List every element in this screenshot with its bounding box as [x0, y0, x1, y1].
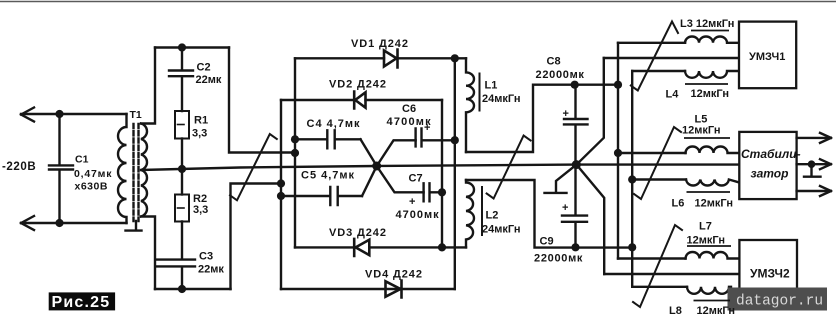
svg-text:L4: L4 — [666, 89, 680, 101]
watermark datagor.ru — [728, 288, 828, 311]
node C6 plus — [451, 136, 459, 144]
svg-text:12мкГн: 12мкГн — [697, 305, 735, 317]
node R1 R2 centre — [178, 165, 186, 173]
wire VD3 rail — [295, 246, 466, 248]
svg-text:С2: С2 — [197, 62, 211, 74]
wire VD1 rail — [295, 57, 466, 59]
svg-text:С9: С9 — [540, 236, 554, 248]
wire centre tap line — [141, 165, 739, 170]
svg-text:+: + — [424, 122, 430, 134]
inductor L1 core — [479, 74, 481, 111]
wire C4 to X node — [361, 139, 377, 166]
inductor L2 — [466, 180, 474, 247]
svg-text:22мк: 22мк — [198, 264, 224, 276]
wire 0V upper rail to UMZCH1 — [604, 57, 739, 59]
svg-text:С3: С3 — [199, 251, 213, 263]
inductor L6 — [686, 180, 739, 186]
capacitor C5 — [281, 187, 362, 205]
node C1 top — [55, 110, 63, 118]
svg-text:12мкГн: 12мкГн — [691, 88, 729, 100]
svg-text:3,3: 3,3 — [193, 204, 208, 216]
node VD1 plus — [451, 54, 459, 62]
svg-text:22000мк: 22000мк — [536, 69, 585, 81]
cable mark L7/L8 — [633, 225, 682, 307]
svg-text:12мкГн: 12мкГн — [687, 235, 725, 247]
wire X node to C6 — [377, 140, 416, 166]
capacitor C9 — [562, 165, 587, 248]
svg-text:L7: L7 — [699, 221, 712, 233]
ground at stabilizer common — [804, 164, 821, 177]
capacitor C3 — [157, 222, 195, 290]
capacitor C2 — [169, 48, 193, 112]
capacitor C1 — [49, 114, 73, 223]
svg-text:Стабили-: Стабили- — [741, 147, 801, 161]
svg-text:+: + — [562, 202, 568, 214]
node C9 bottom — [571, 243, 579, 251]
svg-text:R1: R1 — [194, 115, 208, 127]
wire VD2 rail — [281, 99, 442, 101]
wire L3 rail — [618, 42, 685, 44]
svg-text:4700мк: 4700мк — [396, 209, 440, 221]
wire stabilizer output common — [797, 163, 830, 165]
ground at 0V junction — [545, 165, 577, 193]
svg-text:+: + — [563, 108, 569, 120]
arrow input top — [21, 108, 34, 122]
svg-text:12мкГн: 12мкГн — [695, 198, 733, 210]
svg-text:22мк: 22мк — [196, 74, 222, 86]
svg-text:datagor.ru: datagor.ru — [736, 294, 823, 310]
wire VD4 rail — [281, 288, 455, 290]
svg-text:УМЗЧ2: УМЗЧ2 — [750, 267, 790, 281]
wire rail corner to lower AC — [231, 184, 282, 290]
wire L4 rail — [632, 70, 685, 72]
wire AC-a riser (VD1 left column) — [294, 58, 296, 247]
capacitor C6 — [416, 128, 455, 146]
diode VD4 — [386, 281, 402, 298]
resistor R2 — [181, 169, 183, 195]
wire 0V junction to lower branch — [577, 165, 605, 274]
node C7 minus — [438, 188, 446, 196]
svg-text:0,47мк: 0,47мк — [74, 168, 112, 180]
capacitor C8 — [564, 85, 588, 165]
node AC-a in — [291, 149, 299, 157]
svg-text:-220В: -220В — [2, 161, 36, 173]
capacitor C7 — [424, 183, 442, 201]
arrow stabilizer output minus — [820, 186, 831, 196]
svg-text:3,3: 3,3 — [192, 128, 207, 140]
svg-text:L3 12мкГн: L3 12мкГн — [680, 18, 734, 30]
svg-text:L6: L6 — [672, 198, 685, 210]
node C2 top rail — [178, 43, 186, 51]
inductor L8 — [687, 287, 731, 294]
transformer T1 core — [134, 124, 139, 221]
block UMZCH1 — [739, 22, 796, 89]
wire X node to C7 — [377, 166, 424, 192]
svg-text:С6: С6 — [402, 103, 416, 115]
cable mark L1/L2 — [487, 136, 531, 199]
wire L7 rail — [618, 257, 686, 259]
svg-text:VD4 Д242: VD4 Д242 — [365, 269, 423, 281]
resistor R1 — [175, 111, 189, 139]
svg-text:L2: L2 — [486, 210, 499, 222]
svg-text:24мкГн: 24мкГн — [482, 224, 520, 236]
wire R1 to centre — [181, 139, 183, 170]
svg-text:VD3 Д242: VD3 Д242 — [329, 227, 387, 239]
wire bottom rail — [155, 288, 231, 290]
node X centre — [372, 162, 381, 171]
svg-text:22000мк: 22000мк — [534, 253, 583, 265]
transformer T1 primary winding — [118, 114, 127, 223]
wire C5 to X node — [362, 166, 377, 196]
svg-text:Т1: Т1 — [130, 109, 142, 121]
wire L5 rail — [618, 152, 686, 154]
block stabilizer — [739, 132, 796, 199]
svg-text:L8: L8 — [669, 305, 682, 317]
node C3 bottom rail — [178, 285, 186, 293]
wire plus column (outer right) — [454, 58, 456, 289]
diode VD3 — [354, 239, 369, 256]
wire 0V lower rail to UMZCH2 — [604, 273, 739, 275]
wire stabilizer output plus — [797, 137, 830, 139]
svg-text:12мкГн: 12мкГн — [682, 125, 720, 137]
svg-text:С7: С7 — [409, 173, 423, 185]
wire secondary bottom riser — [141, 217, 155, 290]
svg-text:УМЗЧ1: УМЗЧ1 — [749, 51, 785, 63]
svg-text:24мкГн: 24мкГн — [482, 93, 520, 105]
arrow stabilizer output common — [820, 159, 831, 169]
transformer T1 secondary winding — [141, 124, 147, 217]
wire L2 out to minus rail — [466, 180, 632, 248]
inductor L2 core — [481, 187, 483, 235]
wire L8 rail — [632, 286, 687, 288]
wire minus bus — [631, 71, 633, 287]
cable mark L3/L4 — [631, 22, 678, 91]
node AC-b in — [277, 179, 285, 187]
svg-text:Рис.25: Рис.25 — [52, 294, 111, 311]
wire secondary top riser — [141, 48, 155, 124]
arrow stabilizer output plus — [820, 133, 831, 143]
svg-text:VD2 Д242: VD2 Д242 — [329, 79, 387, 91]
wire rail corner to upper AC — [229, 48, 295, 153]
inductor L4 — [685, 71, 739, 78]
wire stabilizer output minus — [797, 190, 830, 192]
svg-text:С4 4,7мк: С4 4,7мк — [307, 118, 361, 130]
capacitor C4 — [295, 130, 361, 148]
node minus bus C9 — [628, 243, 636, 251]
inductor L5 — [686, 147, 740, 154]
wire input bottom — [21, 222, 127, 224]
svg-text:L1: L1 — [485, 80, 498, 92]
node C5 AC-b — [277, 192, 285, 200]
svg-text:х630В: х630В — [75, 181, 108, 193]
node 0V junction — [572, 160, 581, 169]
node plus bus C8 — [614, 81, 622, 89]
inductor L3 — [685, 36, 739, 42]
wire minus column (inner right) — [441, 100, 443, 247]
diode VD1 — [384, 50, 398, 68]
node VD3 minus — [438, 243, 446, 251]
cable mark L5/L6 — [634, 127, 681, 199]
svg-text:затор: затор — [751, 167, 789, 181]
wire plus bus — [617, 43, 619, 259]
node minus bus L6 — [628, 175, 636, 183]
inductor L1 — [466, 58, 474, 152]
svg-text:С8: С8 — [547, 56, 561, 68]
node stabilizer common — [808, 160, 816, 168]
wire input top — [21, 113, 127, 115]
cable mark transformer — [230, 134, 277, 200]
transformer T1 screen ground — [126, 221, 142, 231]
block UMZCH2 — [739, 240, 797, 308]
wire AC-b riser (VD2 left column) — [280, 100, 282, 289]
wire L6 rail — [632, 178, 686, 180]
node C4 AC-a — [291, 135, 299, 143]
scan top edge line — [0, 1, 836, 3]
figure label Ris.25 — [49, 292, 115, 310]
node plus bus L5 — [614, 149, 622, 157]
diode VD2 — [354, 92, 365, 109]
wire L1 out to plus rail — [466, 85, 618, 152]
svg-text:С1: С1 — [75, 154, 89, 166]
node C8 top — [571, 81, 579, 89]
arrow input bottom — [21, 216, 34, 230]
svg-text:VD1 Д242: VD1 Д242 — [351, 38, 409, 50]
node C1 bottom — [55, 219, 63, 227]
wire top rail — [155, 46, 229, 48]
svg-text:С5 4,7мк: С5 4,7мк — [301, 170, 355, 182]
svg-text:+: + — [409, 196, 415, 208]
inductor L7 — [686, 252, 740, 258]
wire 0V junction to upper branch — [577, 58, 604, 165]
